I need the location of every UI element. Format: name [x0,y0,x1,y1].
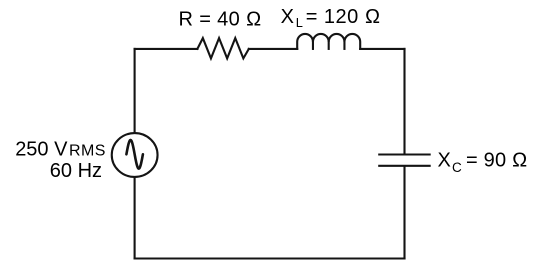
inductor L1 inner leg 3 [343,42,345,49]
capacitor C1 bottom plate [378,165,431,167]
wire left vertical lower (bottom corner to source) [134,177,136,258]
wire bottom horizontal [135,257,405,259]
capacitor C1 top plate [378,153,431,155]
svg-text:= 90 Ω: = 90 Ω [466,149,528,171]
svg-text:= 120 Ω: = 120 Ω [306,6,381,28]
AC source V1 circle [112,133,158,177]
svg-text:X: X [438,149,451,171]
wire right vertical lower (capacitor to bottom-right corner) [403,167,405,259]
svg-text:R = 40 Ω: R = 40 Ω [179,9,262,31]
inductor L1 coil arcs [297,34,360,49]
wire left vertical upper (source to top-left corner) [134,49,136,132]
svg-text:L: L [296,15,303,30]
svg-text:250 V: 250 V [15,138,68,160]
wire top-left horizontal segment [135,48,198,50]
resistor R1 zigzag [197,38,248,58]
wire between resistor and inductor [249,48,297,50]
svg-text:X: X [281,6,294,28]
inductor L1 inner leg 2 [328,42,330,49]
wire inductor to top-right corner [360,48,404,50]
svg-text:60 Hz: 60 Hz [50,160,102,182]
wire right vertical upper (corner to capacitor) [403,49,405,154]
svg-text:RMS: RMS [69,142,106,159]
AC source V1 sine symbol [126,140,142,169]
svg-text:C: C [452,160,462,175]
inductor L1 inner leg 1 [312,42,314,49]
